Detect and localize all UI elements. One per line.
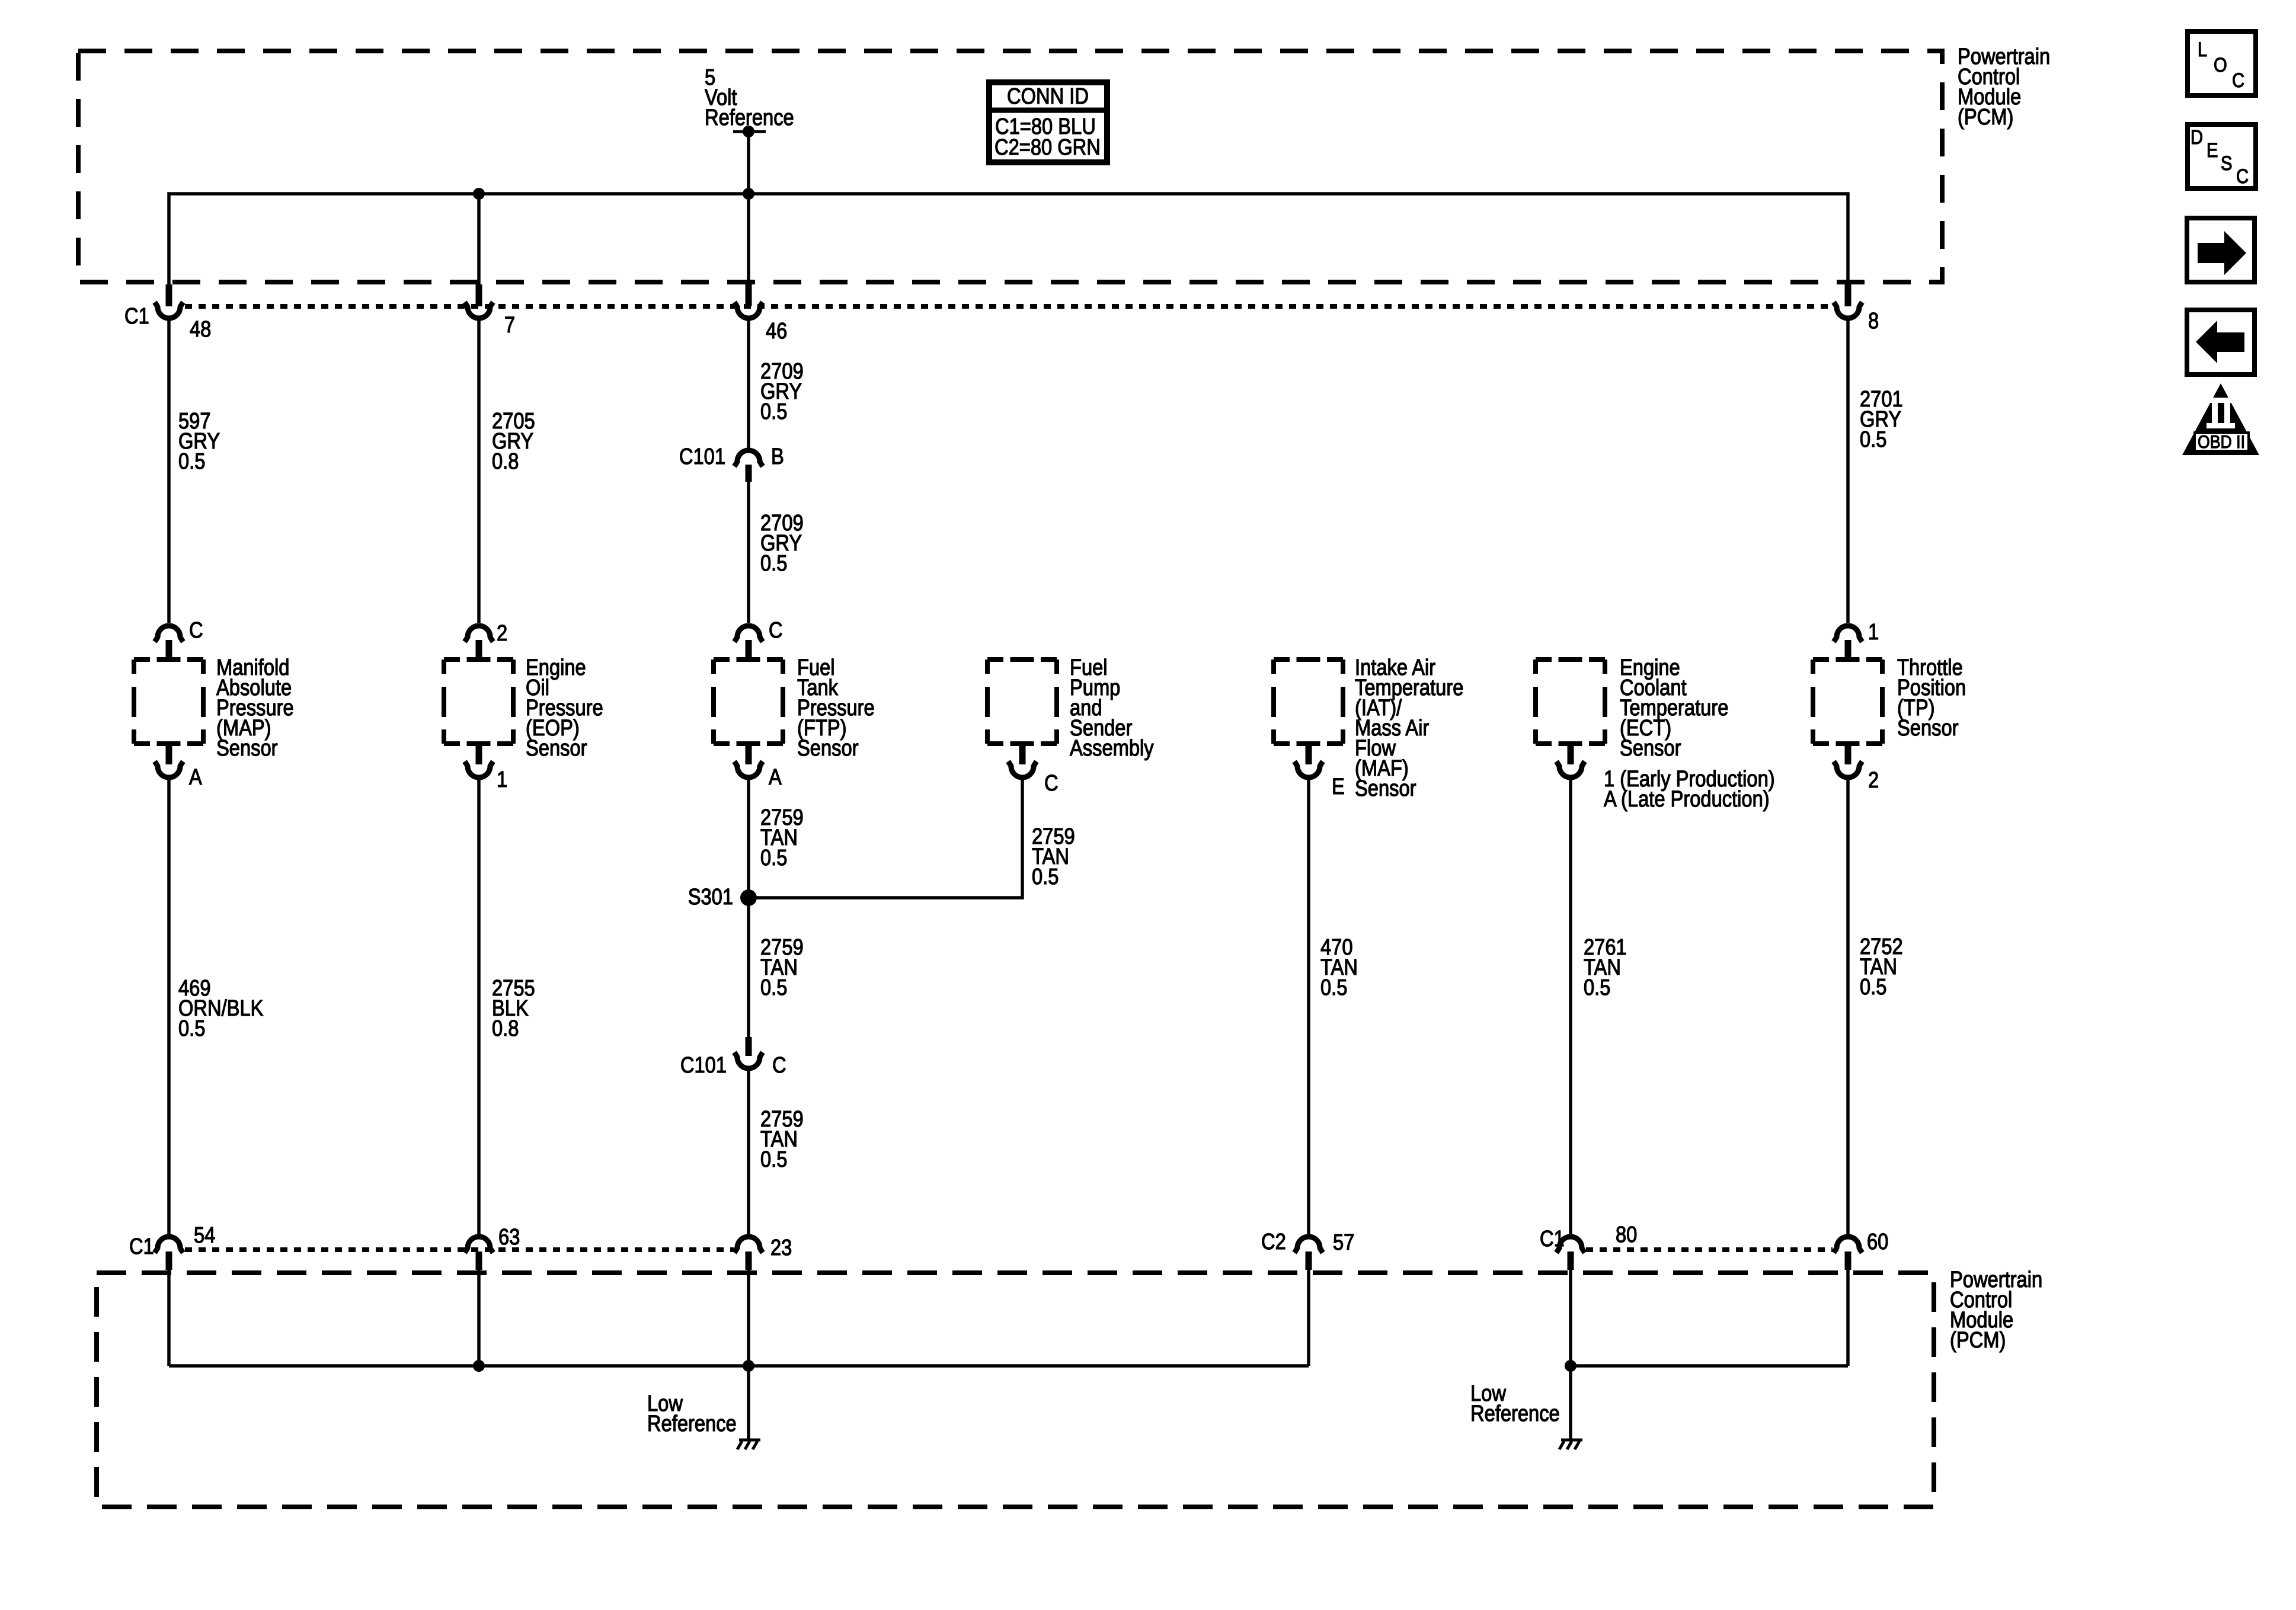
svg-text:C: C: [772, 1052, 786, 1078]
wire 2759 TAN (FTP A to S301): [747, 780, 750, 898]
svg-text:C101: C101: [679, 444, 725, 469]
icon OBD II label box: [2195, 433, 2249, 451]
svg-text:(PCM): (PCM): [1950, 1327, 2006, 1353]
svg-text:S301: S301: [688, 884, 733, 910]
junction dot 5V bus at EOP column: [473, 188, 485, 200]
svg-text:60: 60: [1867, 1229, 1888, 1254]
junction dot low ref bus at EOP column: [473, 1360, 485, 1372]
svg-text:0.5: 0.5: [1860, 427, 1886, 452]
sensor bottom terminal C at x=1725: [1019, 746, 1026, 764]
svg-text:CONN ID: CONN ID: [1007, 84, 1089, 109]
PCM bottom module dashed box: [97, 1273, 1934, 1507]
svg-text:Sensor: Sensor: [1897, 715, 1959, 741]
sensor bottom terminal A at x=285: [166, 746, 172, 764]
wire low reference bus left: [169, 1364, 1309, 1368]
ECT sensor box: [1536, 660, 1605, 744]
svg-text:57: 57: [1333, 1230, 1354, 1255]
svg-text:0.8: 0.8: [492, 449, 519, 474]
wire 2755 BLK (EOP 1 to pin63): [477, 780, 481, 1235]
icon left arrow: [2196, 321, 2244, 363]
sensor top terminal C at x=285: [155, 626, 183, 642]
svg-text:C: C: [1044, 770, 1059, 796]
svg-text:C: C: [2232, 69, 2244, 92]
wire 470 TAN (IAT E to pin57): [1307, 780, 1310, 1235]
MAP sensor box: [134, 660, 203, 744]
svg-text:A (Late Production): A (Late Production): [1604, 786, 1770, 812]
junction dot low ref bus at FTP column: [743, 1360, 754, 1372]
wire 5V bus down to pin 46: [747, 194, 750, 284]
svg-text:L: L: [2198, 38, 2207, 61]
wire 2701 GRY (pin8 to TP 1): [1846, 321, 1850, 623]
PCM bottom pin 63 terminal (dome+pin): [465, 1237, 493, 1253]
wire 2752 TAN (TP 2 to pin60): [1846, 780, 1850, 1235]
icon right arrow: [2198, 231, 2246, 275]
connector C101 pin B (dome+pin): [734, 450, 763, 466]
svg-text:0.5: 0.5: [760, 845, 787, 870]
svg-text:46: 46: [766, 318, 787, 344]
splice S301 dot: [740, 889, 757, 906]
svg-text:0.5: 0.5: [760, 975, 787, 1000]
svg-text:0.5: 0.5: [1320, 975, 1347, 1000]
svg-text:1: 1: [1868, 619, 1879, 645]
svg-text:C2=80 GRN: C2=80 GRN: [994, 135, 1101, 160]
sensor top terminal 1 at x=3118: [1834, 626, 1862, 642]
svg-text:0.8: 0.8: [492, 1016, 519, 1041]
wire pin80 into PCM: [1569, 1269, 1572, 1366]
sensor top terminal 2 at x=808: [465, 626, 493, 642]
wire 2761 TAN (ECT to pin80): [1569, 780, 1572, 1235]
svg-text:0.5: 0.5: [1032, 864, 1059, 889]
TP sensor box: [1813, 660, 1882, 744]
svg-text:OBD II: OBD II: [2198, 432, 2245, 452]
svg-text:A: A: [769, 764, 782, 790]
wire 5V ref stub down to bus: [747, 132, 750, 194]
sensor bottom terminal A at x=1263: [746, 746, 752, 764]
icon left arrow box: [2187, 310, 2255, 375]
5 Volt Reference source dot: [743, 126, 754, 137]
svg-text:C1: C1: [1540, 1226, 1565, 1251]
svg-text:Sensor: Sensor: [1620, 735, 1681, 761]
wire 2709 GRY (pin46 to C101 B): [747, 321, 750, 448]
wire 5V reference bus (pin48 up, across, down to pin8): [169, 194, 1848, 284]
sensor bottom terminal 1 at x=808: [476, 746, 482, 764]
EOP sensor box: [444, 660, 513, 744]
FTP sensor box: [714, 660, 783, 744]
wire 2705 GRY (pin7 to EOP 2): [477, 321, 481, 623]
junction dot 5V bus at FTP column: [743, 188, 754, 200]
sensor top terminal C at x=1263: [734, 626, 763, 642]
PCM pin 7 terminal (pin+cup): [476, 284, 482, 306]
icon OBD II triangle: [2182, 383, 2259, 455]
svg-text:54: 54: [194, 1222, 215, 1248]
PCM C1 connector face dotted line (bottom left): [185, 1247, 734, 1252]
svg-text:O: O: [2214, 53, 2227, 76]
PCM bottom pin 23 terminal (dome+pin): [734, 1237, 763, 1253]
svg-text:S: S: [2221, 152, 2232, 175]
svg-text:C2: C2: [1261, 1229, 1286, 1254]
wire pin57 into PCM: [1307, 1269, 1310, 1366]
svg-text:C: C: [769, 617, 783, 643]
PCM pin 8 terminal (pin+cup): [1845, 284, 1851, 306]
sensor bottom terminal 2 at x=3118: [1845, 746, 1851, 764]
connector C101 pin C (pin+cup): [746, 1037, 752, 1056]
svg-text:D: D: [2191, 126, 2203, 149]
svg-text:A: A: [189, 764, 202, 790]
wire 2759 TAN (S301 to C101 C): [747, 898, 750, 1037]
5 Volt Reference source T-bar: [733, 130, 766, 133]
ground symbol left: [739, 1439, 760, 1442]
sensor bottom terminal E at x=2208: [1306, 746, 1312, 764]
svg-text:0.5: 0.5: [1584, 975, 1610, 1000]
wire low reference bus right: [1571, 1364, 1848, 1368]
icon DESC box: [2188, 124, 2256, 188]
junction dot low ref bus at ECT column: [1565, 1360, 1576, 1372]
svg-text:23: 23: [770, 1235, 792, 1260]
svg-text:0.5: 0.5: [178, 449, 205, 474]
svg-text:C1: C1: [124, 303, 149, 329]
PCM top module dashed box: [78, 51, 1942, 282]
icon right arrow box: [2187, 218, 2255, 282]
wire 2759 TAN (C101 C to pin23): [747, 1071, 750, 1235]
PCM pin 46 terminal (pin+cup): [746, 284, 752, 306]
svg-text:C: C: [2236, 165, 2249, 188]
svg-text:E: E: [2207, 139, 2218, 162]
PCM bottom pin 54 terminal (dome+pin): [155, 1237, 183, 1253]
PCM bottom pin 80 terminal (dome+pin): [1556, 1237, 1585, 1253]
svg-text:Sensor: Sensor: [216, 735, 278, 761]
svg-text:0.5: 0.5: [1860, 974, 1886, 1000]
svg-text:B: B: [771, 444, 784, 469]
svg-text:Sensor: Sensor: [797, 735, 859, 761]
svg-text:Sensor: Sensor: [1355, 776, 1416, 801]
svg-text:0.5: 0.5: [178, 1016, 205, 1041]
svg-text:0.5: 0.5: [760, 550, 787, 576]
svg-text:C: C: [189, 617, 203, 643]
wire pin63 into PCM: [477, 1269, 481, 1366]
svg-text:8: 8: [1868, 308, 1879, 334]
PCM C1 connector face dotted line (bottom right): [1586, 1247, 1833, 1252]
PCM bottom pin 57 terminal (dome+pin): [1294, 1237, 1323, 1253]
ground symbol right: [1561, 1439, 1582, 1442]
Fuel Pump and Sender Assembly box: [987, 660, 1057, 744]
PCM bottom pin 60 terminal (dome+pin): [1834, 1237, 1862, 1253]
wire 2709 GRY (C101 B to FTP C): [747, 482, 750, 623]
PCM C1 connector face dotted line (top): [185, 304, 1833, 309]
svg-text:Reference: Reference: [1470, 1401, 1560, 1426]
IAT/MAF sensor box: [1274, 660, 1343, 744]
svg-text:63: 63: [498, 1224, 520, 1250]
wire to ground right: [1569, 1366, 1572, 1440]
wire pin54 into PCM: [167, 1269, 171, 1366]
svg-text:C101: C101: [680, 1052, 727, 1078]
sensor bottom terminal ECT: [1568, 746, 1574, 764]
wire 5V bus down to pin 7: [477, 194, 481, 284]
svg-text:7: 7: [504, 312, 515, 338]
wire 469 ORN/BLK (MAP A to pin54): [167, 780, 171, 1235]
wire 2759 TAN (fuel pump C to S301): [749, 780, 1022, 898]
svg-text:C1: C1: [129, 1234, 154, 1259]
svg-text:48: 48: [190, 316, 211, 342]
svg-text:80: 80: [1616, 1222, 1637, 1247]
svg-text:1: 1: [497, 767, 507, 792]
wire pin23 into PCM: [747, 1269, 750, 1366]
wire to ground left: [747, 1366, 750, 1440]
icon LOC box: [2188, 31, 2256, 95]
wire 597 GRY (pin48 to MAP C): [167, 321, 171, 623]
wire pin60 into PCM: [1846, 1269, 1850, 1366]
svg-text:Assembly: Assembly: [1070, 735, 1154, 761]
svg-text:0.5: 0.5: [760, 1147, 787, 1172]
svg-text:0.5: 0.5: [760, 399, 787, 424]
svg-text:(PCM): (PCM): [1958, 104, 2013, 130]
svg-text:2: 2: [1868, 767, 1879, 793]
svg-text:Sensor: Sensor: [526, 735, 587, 761]
svg-text:2: 2: [497, 620, 507, 646]
svg-text:Reference: Reference: [647, 1411, 737, 1436]
CONN ID table box: [989, 82, 1107, 162]
icon OBD II pillar: [2207, 398, 2235, 428]
PCM pin 48 terminal (pin+cup): [166, 284, 172, 306]
svg-text:E: E: [1332, 774, 1345, 799]
